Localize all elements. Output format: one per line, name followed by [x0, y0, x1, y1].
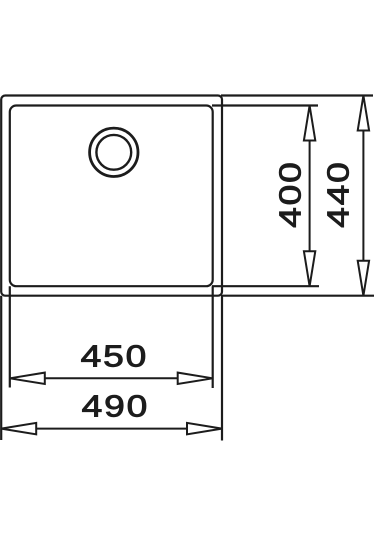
extension line left for 490 dim — [0, 296, 2, 440]
dimension line 490 — [35, 428, 189, 430]
svg-text:400: 400 — [273, 160, 307, 227]
svg-text:450: 450 — [81, 339, 148, 373]
arrowhead 440 top — [358, 96, 369, 131]
dimension line 450 — [43, 377, 179, 379]
arrowhead 400 top — [304, 106, 315, 141]
drain inner circle — [96, 135, 131, 170]
extension line bottom for 400 dim — [212, 285, 319, 287]
svg-text:490: 490 — [82, 389, 149, 423]
svg-text:440: 440 — [321, 160, 355, 227]
dimension line 400 — [309, 139, 311, 253]
extension line right for 450 dim — [212, 286, 214, 388]
arrowhead 440 bottom — [358, 261, 369, 296]
sink outer rim rectangle — [1, 96, 222, 296]
extension line right for 490 dim — [221, 296, 223, 441]
extension line top for 440 dim — [221, 94, 373, 96]
arrowhead 490 right — [187, 423, 222, 434]
arrowhead 400 bottom — [304, 251, 315, 286]
drain outer circle — [90, 128, 138, 176]
dimension line 440 — [362, 129, 364, 262]
extension line left for 450 dim — [9, 286, 11, 387]
arrowhead 450 left — [10, 373, 45, 384]
arrowhead 490 left — [1, 423, 36, 434]
extension line bottom for 440 dim — [221, 295, 374, 297]
arrowhead 450 right — [178, 373, 213, 384]
sink inner bowl rectangle — [10, 106, 213, 287]
extension line top for 400 dim — [212, 104, 318, 106]
